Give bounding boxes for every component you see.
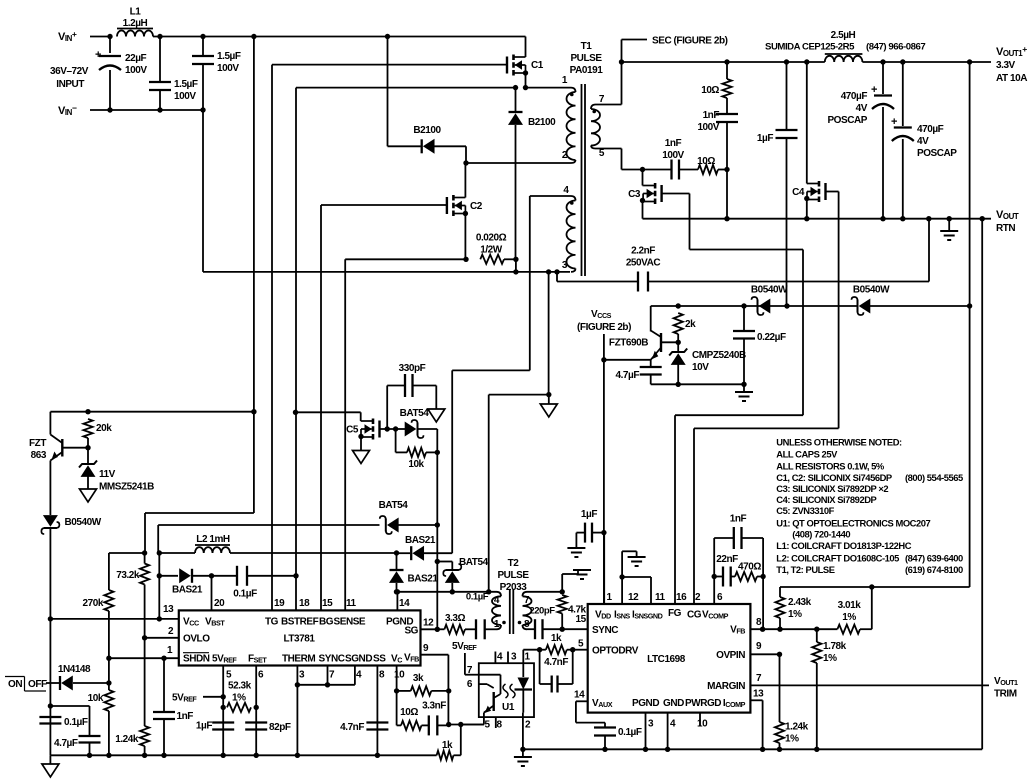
- ground triangle main: [49, 755, 51, 764]
- svg-text:1.24k: 1.24k: [115, 734, 139, 745]
- svg-text:8: 8: [756, 617, 762, 628]
- svg-text:20k: 20k: [96, 423, 112, 434]
- wire SG pin12 row: [421, 628, 438, 630]
- svg-text:B0540W: B0540W: [65, 517, 102, 528]
- svg-text:BAT54: BAT54: [459, 557, 489, 568]
- wire down to cap node: [49, 619, 51, 755]
- svg-text:T1, T2: PULSE: T1, T2: PULSE: [776, 564, 834, 575]
- wire T1 pin5 lead: [596, 148, 622, 150]
- svg-text:VBST: VBST: [205, 617, 225, 628]
- wire VIN+ input: [90, 36, 110, 38]
- svg-text:1: 1: [524, 652, 530, 663]
- svg-text:SENSE: SENSE: [334, 617, 366, 628]
- wire C4 source: [804, 196, 809, 201]
- svg-text:1µF: 1µF: [196, 721, 212, 732]
- wire T1 pin4 bus: [530, 195, 571, 197]
- transistor C3: [642, 170, 644, 186]
- svg-text:SHDN: SHDN: [183, 654, 210, 665]
- svg-text:4: 4: [497, 652, 503, 663]
- svg-text:FZT: FZT: [29, 438, 46, 449]
- svg-text:1/2W: 1/2W: [480, 245, 503, 256]
- svg-text:C3: C3: [628, 189, 641, 200]
- svg-text:B0540W: B0540W: [853, 285, 890, 296]
- wire C1 drain to rail: [525, 37, 527, 58]
- svg-text:330pF: 330pF: [399, 363, 426, 374]
- wire TG gate bus: [271, 65, 273, 611]
- wire VIN+ feed row: [109, 552, 145, 554]
- svg-text:1%: 1%: [232, 693, 246, 704]
- svg-text:3.3V: 3.3V: [996, 60, 1016, 71]
- wire SG bus: [436, 452, 438, 629]
- wire VCCS stub: [603, 334, 605, 360]
- svg-text:TG: TG: [265, 617, 279, 628]
- node T1 pin4 phase dot: [570, 201, 574, 205]
- capacitor 22nF: [714, 576, 723, 578]
- wire C1 source down: [523, 70, 528, 75]
- svg-text:1%: 1%: [788, 609, 802, 620]
- svg-text:6: 6: [258, 670, 264, 681]
- svg-text:C3: SILICONIX Si7892DP ×2: C3: SILICONIX Si7892DP ×2: [776, 483, 888, 494]
- svg-text:C4: C4: [792, 187, 805, 198]
- wire comp to VFB row: [762, 577, 764, 630]
- wire C4 gate down: [826, 191, 839, 193]
- IC LT3781 box: [179, 610, 421, 665]
- svg-text:1%: 1%: [823, 653, 837, 664]
- svg-text:6: 6: [467, 679, 473, 690]
- diode BAT54 charge pump: [157, 525, 159, 553]
- resistor 0.020 ohm 1/2W: [480, 255, 504, 264]
- svg-text:2.2nF: 2.2nF: [631, 246, 655, 257]
- svg-text:BAT54: BAT54: [379, 500, 409, 511]
- svg-text:B2100: B2100: [528, 117, 556, 128]
- svg-text:5: 5: [484, 720, 490, 731]
- svg-text:10k: 10k: [88, 693, 104, 704]
- wire VOUT RTN rail: [643, 218, 992, 220]
- svg-text:1.78k: 1.78k: [823, 641, 847, 652]
- svg-text:1.2µH: 1.2µH: [123, 18, 148, 29]
- resistor 1.78k 1%: [816, 629, 818, 642]
- node cap row: [48, 703, 53, 708]
- node C3 drain: [640, 167, 645, 172]
- capacitor 330pF: [386, 386, 388, 430]
- opto U1 light squiggles: [510, 684, 515, 698]
- resistor 10 ohm horizontal: [698, 165, 718, 174]
- wire OVPIN pin9 row: [750, 653, 779, 655]
- capacitor 0.1uF shutdown: [50, 705, 89, 707]
- wire THERM SYNC SGND tie: [296, 666, 298, 756]
- svg-text:L2: COILCRAFT DO1608C-105: L2: COILCRAFT DO1608C-105: [776, 552, 899, 563]
- ground at RTN: [948, 219, 950, 231]
- svg-text:0.020Ω: 0.020Ω: [476, 233, 507, 244]
- wire BG gate bus: [320, 205, 322, 610]
- svg-text:BG: BG: [319, 617, 334, 628]
- svg-text:7: 7: [329, 670, 335, 681]
- diode BAT54 C5: [396, 428, 405, 430]
- wire VDD bus from VCCS: [603, 360, 605, 604]
- svg-text:1.5µF: 1.5µF: [174, 79, 198, 90]
- svg-text:10Ω: 10Ω: [701, 85, 719, 96]
- svg-text:OPTODRV: OPTODRV: [592, 646, 639, 657]
- zener CMPZ5240B 10V: [677, 342, 679, 352]
- inductor L1: [117, 31, 153, 37]
- wire B2100 anode to VIN- row: [515, 259, 517, 272]
- ground triangle VIN- stub: [548, 395, 550, 404]
- svg-text:4.7µF: 4.7µF: [615, 370, 639, 381]
- wire VFB pin8 row: [750, 628, 837, 630]
- svg-text:1%: 1%: [785, 734, 799, 745]
- svg-text:(FIGURE 2b): (FIGURE 2b): [577, 322, 631, 333]
- svg-text:VCOMP: VCOMP: [702, 610, 729, 621]
- wire VIN- stub to ground: [546, 269, 551, 274]
- transformer T1 primary upper winding: [571, 88, 576, 92]
- svg-text:0.22µF: 0.22µF: [757, 332, 786, 343]
- wire VCC riser: [157, 550, 162, 555]
- wire MARGIN pin7 row: [750, 684, 989, 686]
- wire OPTODRV pin5 row: [573, 649, 588, 651]
- svg-text:0.1µF: 0.1µF: [466, 592, 489, 603]
- svg-text:1k: 1k: [551, 633, 562, 644]
- wire VBST pin20 riser: [211, 576, 213, 611]
- resistor 3.01k 1%: [837, 625, 860, 634]
- svg-text:3.01k: 3.01k: [838, 600, 862, 611]
- wire VCC row to L2: [159, 552, 195, 554]
- resistor 10k shutdown: [108, 658, 110, 690]
- svg-text:C4: SILICONIX Si7892DP: C4: SILICONIX Si7892DP: [776, 494, 876, 505]
- ground triangle 330pF: [435, 386, 437, 410]
- node T1 sec phase dot: [592, 110, 596, 114]
- svg-text:12: 12: [423, 618, 434, 629]
- svg-text:0.1µF: 0.1µF: [64, 717, 88, 728]
- svg-text:6: 6: [717, 592, 723, 603]
- svg-text:2.43k: 2.43k: [788, 597, 812, 608]
- wire BSTREF clamp row: [293, 410, 298, 415]
- svg-text:C5: ZVN3310F: C5: ZVN3310F: [776, 505, 834, 516]
- svg-text:11: 11: [346, 598, 357, 609]
- svg-text:(847) 966-0867: (847) 966-0867: [866, 42, 925, 53]
- svg-text:16: 16: [676, 592, 687, 603]
- wire VCOMP pin6 riser: [713, 577, 715, 605]
- svg-text:10: 10: [697, 719, 708, 730]
- svg-text:T2: T2: [508, 558, 520, 569]
- svg-text:ALL CAPS 25V: ALL CAPS 25V: [776, 449, 838, 460]
- svg-text:100V: 100V: [125, 65, 147, 76]
- svg-text:100V: 100V: [662, 150, 684, 161]
- svg-text:8: 8: [496, 720, 502, 731]
- svg-text:14: 14: [399, 598, 410, 609]
- capacitor 1uF pin5: [212, 721, 234, 723]
- svg-text:3: 3: [648, 719, 654, 730]
- wire secondary top rail: [622, 61, 825, 63]
- ground T2 pin7: [561, 574, 563, 592]
- wire startup row: [49, 412, 51, 435]
- wire VCCS bottom row: [651, 383, 744, 385]
- svg-text:1: 1: [167, 645, 173, 656]
- wire C2 drain: [464, 163, 466, 198]
- capacitor 3.3nF: [422, 724, 429, 726]
- svg-text:52.3k: 52.3k: [228, 681, 252, 692]
- diode 1N4148: [46, 682, 59, 684]
- svg-text:SGND: SGND: [345, 654, 372, 665]
- wire BSTREF bus: [295, 88, 297, 611]
- node T2 pin1 phase dot: [502, 621, 506, 625]
- svg-text:0.1µF: 0.1µF: [618, 727, 642, 738]
- svg-text:FG: FG: [668, 608, 682, 619]
- capacitor 1nF comp: [713, 538, 715, 575]
- svg-text:+: +: [871, 84, 877, 96]
- wire T1 pin2 lead: [571, 160, 576, 163]
- wire C3 source: [640, 198, 645, 203]
- capacitor 2.2nF 250VAC: [554, 269, 559, 274]
- wire T1 pin3 lead: [571, 269, 576, 272]
- svg-text:12: 12: [628, 592, 639, 603]
- wire B2100 left to C2 drain: [434, 145, 467, 147]
- capacitor 470uF POSCAP second: [902, 62, 904, 126]
- wire BAS21 to VBST: [192, 575, 212, 577]
- resistor 73.2k: [144, 553, 146, 564]
- svg-text:4V: 4V: [856, 103, 868, 114]
- svg-text:MMSZ5241B: MMSZ5241B: [99, 482, 154, 493]
- wire VAUX pin14: [576, 700, 588, 702]
- wire L2 to BAS21 row: [230, 552, 397, 554]
- diode BAT54 vertical: [437, 561, 452, 563]
- svg-text:3.3nF: 3.3nF: [422, 701, 446, 712]
- svg-text:BAS21: BAS21: [172, 585, 203, 596]
- svg-text:PA0191: PA0191: [570, 65, 604, 76]
- wire ISNS ground jog: [621, 551, 623, 604]
- svg-text:ICOMP: ICOMP: [723, 698, 746, 709]
- svg-text:OFF: OFF: [28, 679, 47, 690]
- svg-text:1: 1: [607, 592, 613, 603]
- svg-text:ISNS: ISNS: [614, 610, 630, 621]
- svg-text:SS: SS: [373, 654, 386, 665]
- svg-text:220pF: 220pF: [529, 606, 555, 617]
- wire bottom left rail: [50, 754, 436, 756]
- svg-text:3: 3: [511, 652, 517, 663]
- svg-text:VAUX: VAUX: [592, 698, 613, 709]
- capacitor 0.22uF: [743, 306, 745, 331]
- capacitor 1nF 100V snubber vertical: [726, 98, 728, 114]
- svg-text:36V–72V: 36V–72V: [50, 66, 89, 77]
- svg-text:470Ω: 470Ω: [738, 562, 761, 573]
- svg-text:PWRGD: PWRGD: [685, 698, 721, 709]
- wire opto pin5 emitter: [483, 713, 485, 725]
- svg-text:5VREF: 5VREF: [452, 641, 477, 652]
- capacitor 1.5uF 100V second: [202, 37, 204, 57]
- svg-text:L1: COILCRAFT DO1813P-122HC: L1: COILCRAFT DO1813P-122HC: [776, 540, 911, 551]
- svg-text:POSCAP: POSCAP: [917, 148, 957, 159]
- svg-text:1nF: 1nF: [730, 514, 747, 525]
- wire VIN- row: [90, 109, 203, 111]
- svg-text:C5: C5: [346, 425, 359, 436]
- svg-text:15: 15: [576, 614, 587, 625]
- svg-text:THERM: THERM: [282, 654, 315, 665]
- svg-text:100V: 100V: [174, 91, 196, 102]
- capacitor 0.1uF VAUX: [604, 723, 606, 728]
- svg-text:10V: 10V: [692, 362, 709, 373]
- svg-text:13: 13: [163, 604, 174, 615]
- svg-text:B2100: B2100: [413, 125, 441, 136]
- svg-text:5VREF: 5VREF: [212, 654, 237, 665]
- svg-text:100V: 100V: [697, 122, 719, 133]
- svg-text:10k: 10k: [408, 459, 424, 470]
- svg-text:1N4148: 1N4148: [58, 664, 91, 675]
- svg-text:8: 8: [379, 670, 385, 681]
- svg-text:L1: L1: [130, 7, 142, 18]
- svg-text:20: 20: [214, 598, 225, 609]
- svg-text:22nF: 22nF: [716, 554, 738, 565]
- wire SHDN pin1 row: [109, 657, 179, 659]
- svg-text:C2: C2: [470, 201, 483, 212]
- svg-text:4: 4: [670, 719, 676, 730]
- resistor 470 ohm: [735, 572, 757, 581]
- wire rail to VOUT+: [862, 61, 991, 63]
- wire T1 pin2 row: [466, 162, 571, 164]
- capacitor 4.7nF SS: [366, 721, 388, 723]
- wire snubber to RTN: [726, 170, 728, 219]
- svg-text:22µF: 22µF: [125, 53, 147, 64]
- svg-text:U1: U1: [502, 702, 515, 713]
- transistor FZT863: [61, 439, 63, 457]
- svg-text:9: 9: [756, 641, 762, 652]
- diode B0540W second: [787, 305, 857, 307]
- svg-text:(408) 720-1440: (408) 720-1440: [792, 529, 850, 540]
- node T2 pin8 phase dot: [518, 621, 522, 625]
- svg-text:11: 11: [655, 592, 666, 603]
- svg-text:CMPZ5240B: CMPZ5240B: [692, 350, 746, 361]
- svg-text:1: 1: [494, 619, 500, 630]
- wire VDD pin1 riser: [603, 533, 605, 604]
- wire C5 gate row: [380, 428, 396, 430]
- ground LTC1698: [522, 749, 524, 757]
- wire T2 pin4 riser: [489, 394, 549, 396]
- resistor 2k: [674, 313, 683, 334]
- svg-text:4.7nF: 4.7nF: [340, 722, 364, 733]
- svg-text:1nF: 1nF: [177, 711, 194, 722]
- svg-text:3: 3: [299, 670, 305, 681]
- node BAT54 SG junction: [435, 522, 440, 527]
- wire LTC1698 ground rail: [523, 748, 982, 750]
- svg-text:(847) 639-6400: (847) 639-6400: [905, 552, 963, 563]
- svg-text:(619) 674-8100: (619) 674-8100: [905, 564, 963, 575]
- capacitor 22uF 100V: [109, 37, 111, 54]
- svg-text:PULSE: PULSE: [570, 53, 602, 64]
- resistor 10 ohm VC: [396, 691, 398, 726]
- svg-text:VFB: VFB: [404, 653, 419, 664]
- resistor 10k C5: [395, 429, 397, 452]
- wire VOUT RTN down right: [981, 219, 983, 750]
- svg-text:270k: 270k: [83, 598, 104, 609]
- resistor 1k opto: [546, 645, 567, 654]
- wire sense to divider: [872, 586, 970, 588]
- svg-text:OVLO: OVLO: [183, 634, 210, 645]
- svg-text:OVPIN: OVPIN: [716, 650, 745, 661]
- diode B2100 center: [515, 88, 517, 112]
- svg-text:SG: SG: [404, 626, 418, 637]
- svg-text:73.2k: 73.2k: [116, 570, 140, 581]
- svg-text:4V: 4V: [917, 136, 929, 147]
- wire PGND pin3: [645, 713, 647, 750]
- svg-text:FZT690B: FZT690B: [609, 338, 648, 349]
- svg-text:LT3781: LT3781: [283, 634, 315, 645]
- resistor 3.3 ohm: [437, 628, 444, 630]
- wire opto pin1 riser: [523, 649, 539, 651]
- capacitor 82pF: [245, 721, 267, 723]
- ground VCCS: [743, 384, 745, 392]
- svg-text:100V: 100V: [217, 63, 239, 74]
- wire SS pin8 riser: [376, 666, 378, 756]
- wire VIN- bus down and across: [200, 107, 205, 112]
- wire VOUT+ sense down: [969, 62, 971, 587]
- wire T2 pin7 lead: [527, 591, 562, 593]
- svg-text:470µF: 470µF: [841, 91, 868, 102]
- svg-text:SUMIDA CEP125-2R5: SUMIDA CEP125-2R5: [765, 42, 855, 53]
- svg-text:3: 3: [562, 260, 568, 271]
- resistor 270k: [108, 553, 110, 590]
- svg-text:SEC (FIGURE 2b): SEC (FIGURE 2b): [652, 36, 728, 47]
- wire OVLO pin2 row: [145, 637, 179, 639]
- svg-text:INPUT: INPUT: [56, 79, 84, 90]
- svg-text:250VAC: 250VAC: [626, 258, 661, 269]
- transformer T1 core: [581, 84, 583, 276]
- svg-text:ISNSGND: ISNSGND: [632, 610, 663, 621]
- svg-text:LTC1698: LTC1698: [647, 654, 686, 665]
- svg-text:4: 4: [356, 670, 362, 681]
- svg-text:2: 2: [525, 720, 531, 731]
- svg-text:U1: QT OPTOELECTRONICS MOC207: U1: QT OPTOELECTRONICS MOC207: [776, 517, 930, 528]
- resistor 3k: [397, 690, 411, 692]
- wire ICOMP pin13: [750, 699, 762, 701]
- diode B2100 left: [421, 139, 423, 153]
- resistor 4.7k: [558, 595, 567, 614]
- svg-text:10Ω: 10Ω: [697, 156, 715, 167]
- svg-text:MARGIN: MARGIN: [707, 681, 745, 692]
- svg-text:VCCS: VCCS: [591, 309, 612, 320]
- svg-text:2: 2: [562, 150, 568, 161]
- node VCC junction: [48, 616, 53, 621]
- wire FSET pin6 riser: [255, 666, 257, 756]
- svg-text:VOUT1: VOUT1: [994, 676, 1018, 687]
- capacitor 1nF shutdown: [163, 658, 165, 712]
- wire sense right: [504, 258, 516, 260]
- svg-text:3k: 3k: [413, 673, 424, 684]
- svg-text:FSET: FSET: [248, 654, 267, 665]
- wire PGND pin14 riser: [396, 592, 398, 611]
- wire VC pin10 riser: [396, 666, 398, 691]
- IC LTC1698 box: [588, 604, 751, 713]
- diode B0540W first: [757, 300, 759, 313]
- svg-text:1: 1: [562, 75, 568, 86]
- svg-text:0.1µF: 0.1µF: [233, 589, 257, 600]
- opto stub pins: [494, 652, 496, 664]
- capacitor 4.7uF VCCS: [650, 360, 652, 367]
- resistor 20k: [83, 419, 92, 438]
- node VIN+ junction: [107, 34, 112, 39]
- wire T1 pin7 to sec rail: [596, 104, 622, 106]
- svg-text:ON: ON: [8, 679, 22, 690]
- svg-text:2k: 2k: [685, 319, 696, 330]
- wire VCC pin13 row: [50, 618, 178, 620]
- capacitor 220pF: [527, 628, 535, 630]
- wire PWRGD pin10 stub: [699, 713, 701, 726]
- svg-text:1.24k: 1.24k: [785, 722, 809, 733]
- svg-text:SYNC: SYNC: [592, 625, 618, 636]
- resistor 1.24k 1%: [779, 654, 781, 722]
- wire FG route from C3 gate: [690, 249, 804, 251]
- resistor 10 ohm snubber vertical: [726, 62, 728, 79]
- wire GND pin4: [667, 713, 669, 750]
- svg-text:4.7nF: 4.7nF: [544, 657, 568, 668]
- svg-text:7: 7: [599, 94, 605, 105]
